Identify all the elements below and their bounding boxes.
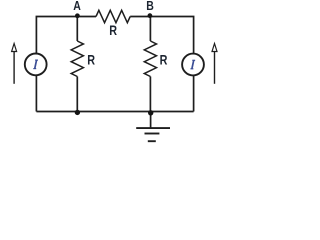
wire resistor R (top) to node B [130, 16, 150, 18]
wire top-right (node B to corner, down to source I2) [150, 17, 193, 54]
svg-text:A: A [73, 0, 81, 13]
wire source I2 bottom stub [193, 76, 195, 112]
svg-text:R: R [109, 22, 117, 38]
node B junction dot [148, 13, 153, 18]
current source I2 (right) circle [182, 54, 204, 76]
wire bottom (left corner to right corner) [36, 111, 193, 113]
current direction arrow for I2 (shaft) [214, 52, 216, 84]
svg-text:R: R [160, 52, 168, 68]
current source I1 (left) circle [25, 54, 47, 76]
ground stub wire [150, 112, 152, 129]
current direction arrow for I1 (shaft) [13, 52, 15, 84]
value label R (left resistor) [87, 52, 95, 68]
source value label I (right source I2) [190, 60, 195, 69]
wire source I1 bottom stub [35, 76, 37, 112]
value label R (right resistor) [160, 52, 168, 68]
wire resistor (under B) to bottom junction [149, 77, 151, 112]
bottom junction dot under B (ground node) [148, 110, 153, 115]
wire resistor (under A) to bottom junction [76, 77, 78, 112]
wire top-left (corner to node A) [36, 17, 77, 54]
node A junction dot [75, 13, 80, 18]
resistor R (top, between A and B) [96, 10, 130, 22]
node label A [73, 0, 81, 13]
node label B [146, 0, 154, 13]
resistor R (under node A) [71, 41, 83, 77]
source value label I (left source I1) [33, 60, 38, 69]
value label R (top resistor) [109, 22, 117, 38]
svg-text:B: B [146, 0, 154, 13]
wire node A to resistor R (top) [77, 16, 96, 18]
bottom junction dot under A [75, 110, 80, 115]
current direction arrow for I1 (open head) [12, 44, 17, 52]
resistor R (under node B) [144, 41, 156, 77]
ground symbol bars [136, 128, 170, 141]
svg-text:R: R [87, 52, 95, 68]
wire node B down to resistor R (right-middle branch) [149, 17, 151, 42]
wire node A down to resistor R (left branch) [76, 17, 78, 42]
current direction arrow for I2 (open head) [212, 44, 217, 52]
